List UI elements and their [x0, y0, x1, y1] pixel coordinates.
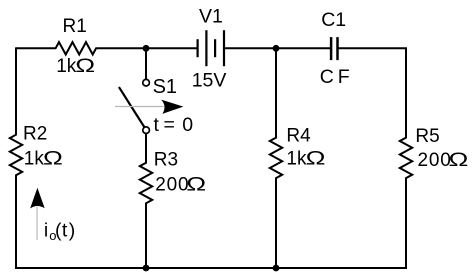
svg-text:R1: R1 [63, 16, 87, 37]
svg-text:R4: R4 [286, 126, 311, 147]
svg-text:C1: C1 [321, 9, 346, 31]
svg-text:(t): (t) [55, 220, 75, 242]
svg-text:1k: 1k [24, 148, 45, 169]
svg-text:15V: 15V [192, 70, 227, 92]
svg-text:Ω: Ω [186, 173, 206, 194]
svg-text:R2: R2 [23, 123, 47, 144]
svg-text:i: i [44, 220, 48, 242]
svg-text:Ω: Ω [449, 149, 469, 170]
svg-text:Ω: Ω [75, 55, 95, 76]
svg-text:Ω: Ω [43, 147, 63, 168]
svg-text:200: 200 [155, 175, 189, 196]
svg-text:S1: S1 [153, 76, 177, 98]
svg-text:V1: V1 [199, 6, 223, 28]
svg-text:R5: R5 [415, 126, 439, 147]
svg-text:C F: C F [320, 66, 350, 88]
svg-text:200: 200 [418, 150, 452, 171]
svg-text:Ω: Ω [306, 147, 326, 168]
svg-text:R3: R3 [154, 150, 178, 171]
svg-text:1k: 1k [56, 56, 77, 77]
svg-text:1k: 1k [286, 148, 307, 169]
